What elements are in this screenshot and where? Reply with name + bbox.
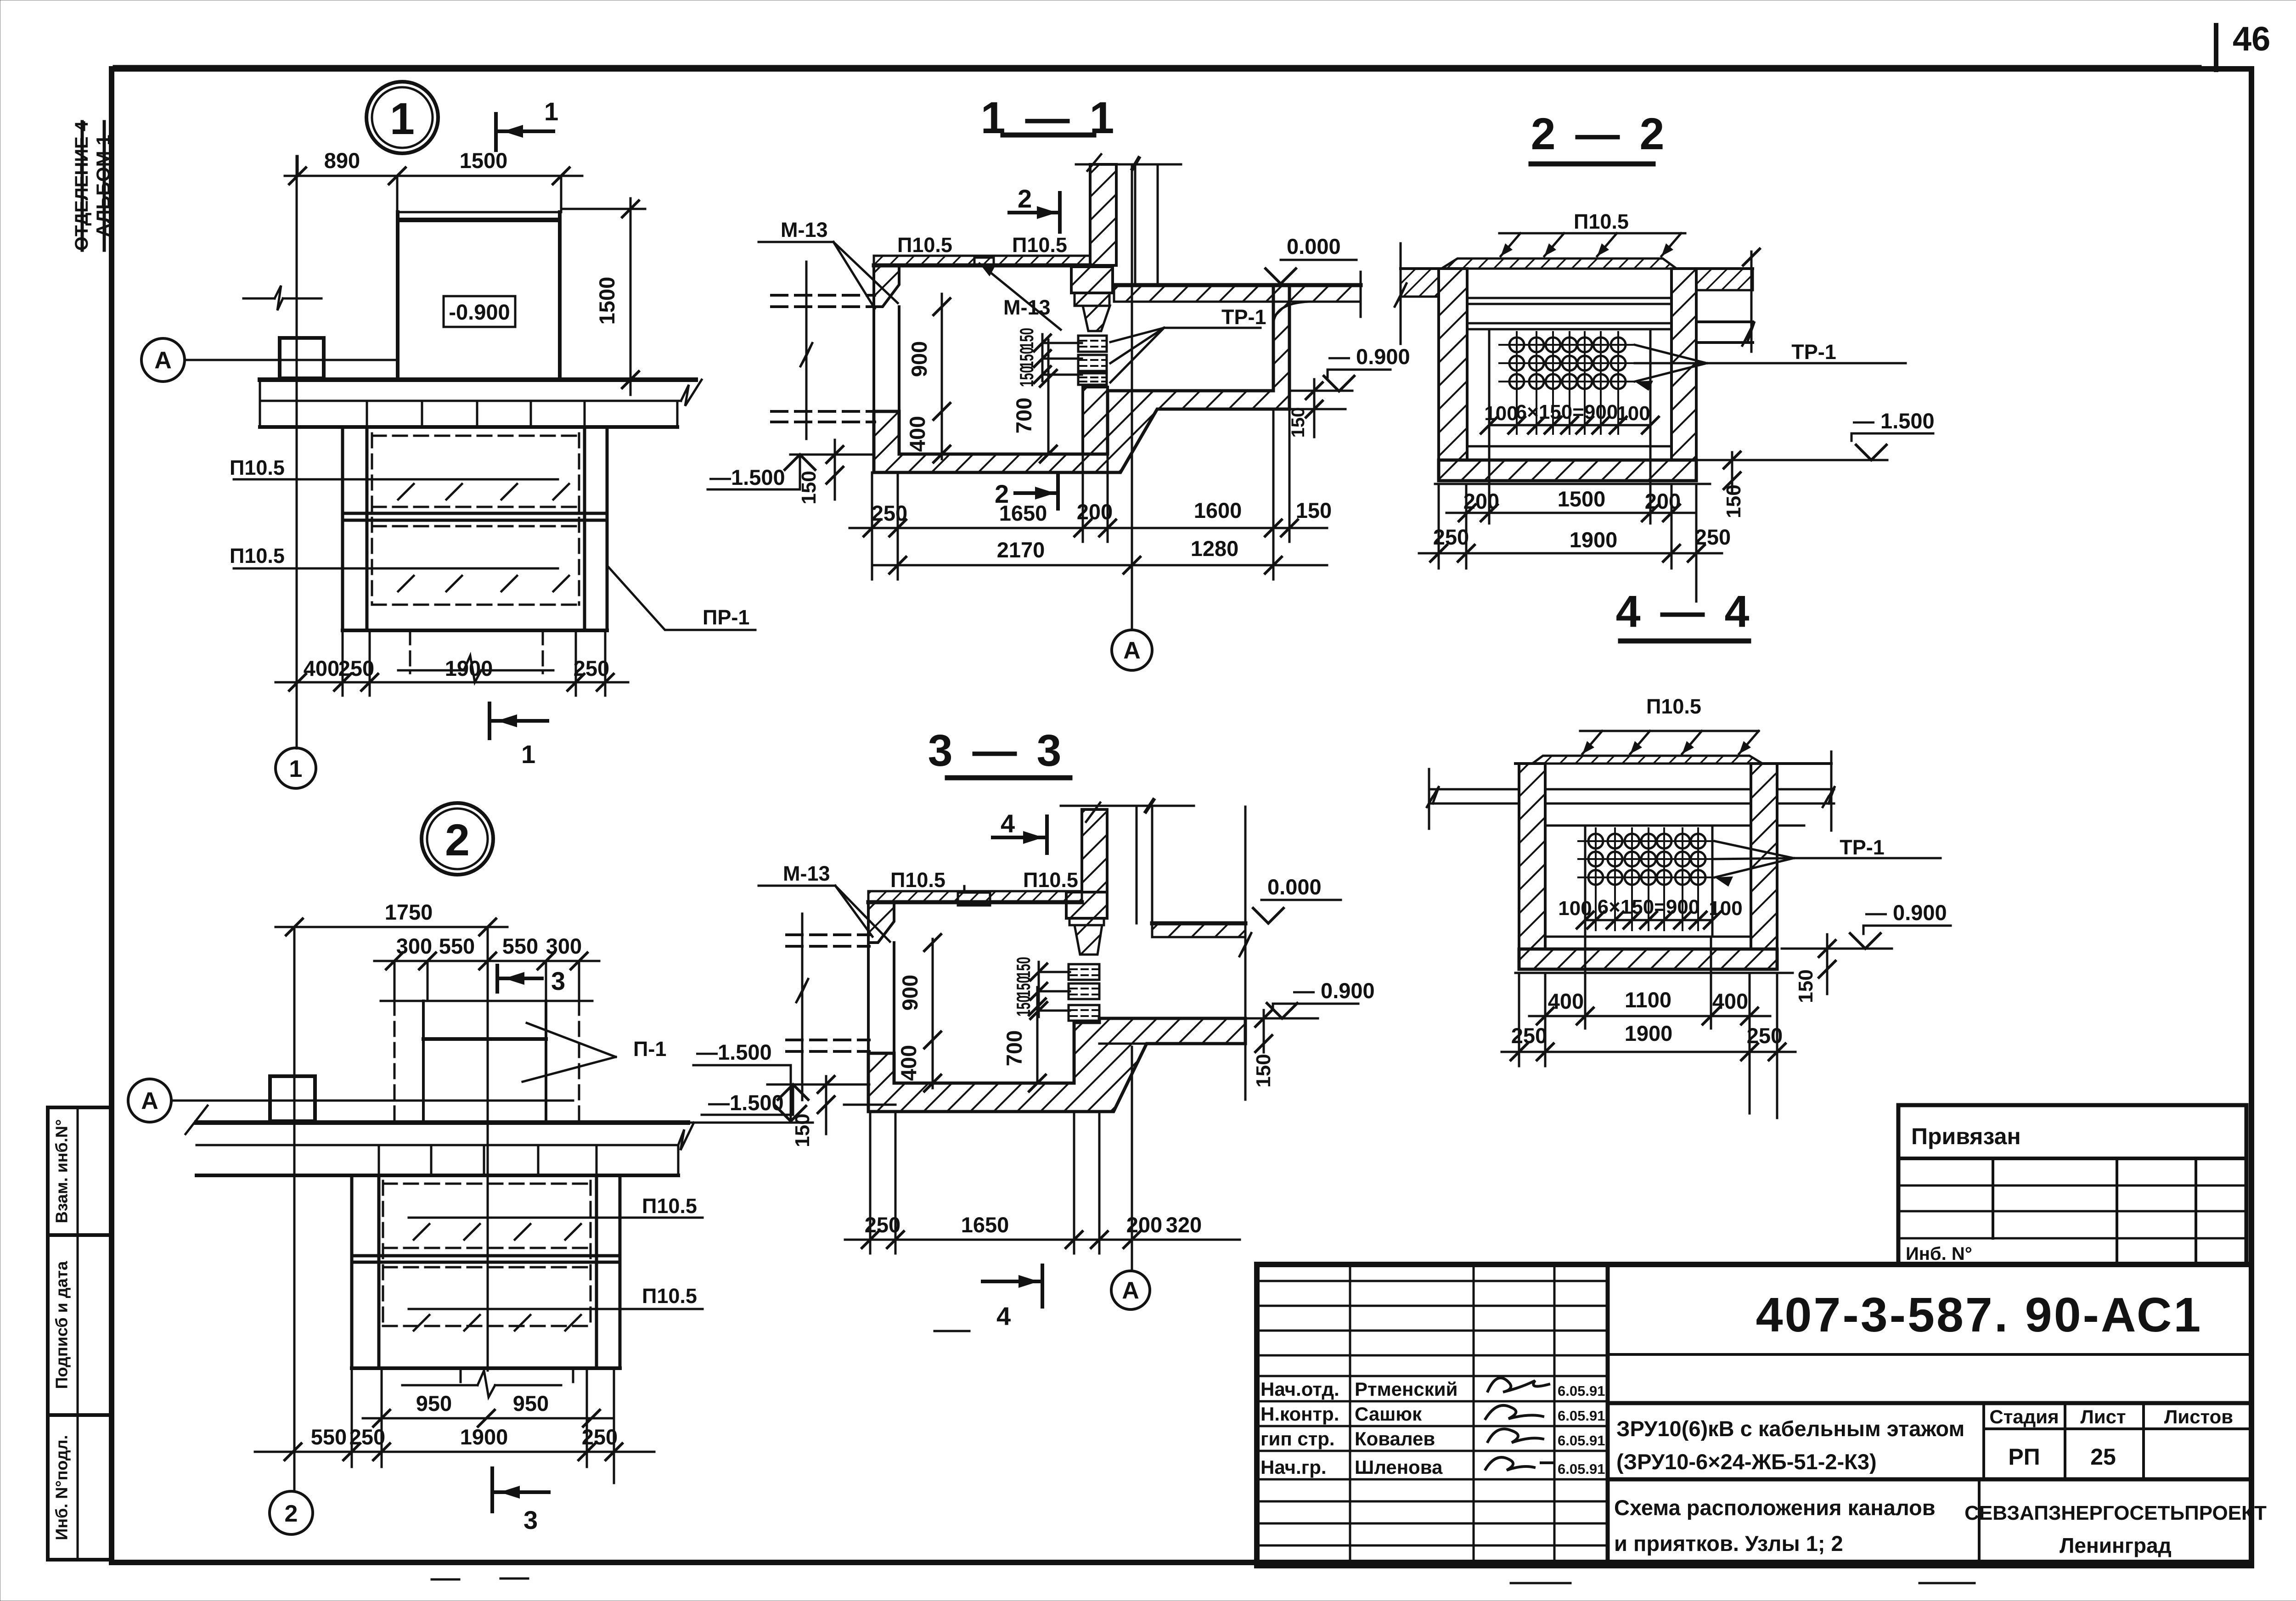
slab band 2 with panel joints [260,425,677,429]
dim 150 slab left [825,1076,827,1134]
svg-text:(ЗРУ10-6×24-ЖБ-51-2-К3): (ЗРУ10-6×24-ЖБ-51-2-К3) [1616,1449,1877,1474]
svg-text:1: 1 [521,740,535,769]
dim 900/400 vertical [932,939,934,1088]
TR-1 circle grid [1499,332,1635,434]
node marker 2 (double circle) [422,803,493,875]
svg-text:250: 250 [872,501,907,525]
left floor band [1401,269,1439,297]
axis A circle [1112,630,1152,670]
svg-text:Листов: Листов [2164,1406,2233,1427]
level -0.900 [1782,948,1892,950]
svg-text:150: 150 [791,1113,814,1147]
dim 150 base right [1731,452,1733,491]
svg-text:Стадия: Стадия [1989,1406,2059,1427]
svg-text:150: 150 [1252,1054,1275,1087]
org box [1978,1479,1981,1566]
axis A circle + line [128,1079,171,1122]
right floor bands [1696,269,1753,290]
svg-text:6.05.91: 6.05.91 [1558,1383,1605,1399]
svg-text:150: 150 [1016,328,1037,349]
central wall below pipes [1083,387,1108,454]
svg-text:100: 100 [1558,897,1592,920]
svg-text:-0.900: -0.900 [449,300,510,324]
base slab [1519,949,1777,969]
tank plan rectangle [398,211,560,213]
right part horizontals [1608,1353,2251,1356]
svg-text:П10.5: П10.5 [1574,210,1629,233]
svg-text:М-13: М-13 [783,862,830,885]
svg-text:150: 150 [1013,957,1034,978]
svg-text:—1.500: —1.500 [696,1040,772,1064]
svg-text:1750: 1750 [385,900,433,924]
svg-text:П10.5: П10.5 [230,456,285,479]
left wall upper (hatched) with notch [874,265,899,307]
svg-text:1650: 1650 [999,501,1047,525]
svg-text:6×150=900: 6×150=900 [1598,896,1700,918]
floor 0.000 band right [1152,923,1245,937]
label P-1 [527,1023,616,1057]
svg-text:П10.5: П10.5 [642,1284,697,1308]
slab dowel detail [958,893,990,905]
left wall lower + channel floor + central wall + pit floor [868,1018,1245,1112]
svg-text:300: 300 [546,934,582,958]
svg-text:950: 950 [513,1391,549,1416]
svg-text:250: 250 [1511,1023,1547,1048]
svg-text:150: 150 [1013,976,1034,997]
slab band 1 [197,1120,688,1125]
right wall curve [1273,302,1309,324]
svg-text:150: 150 [1016,366,1037,387]
dashes below pit [461,1368,573,1388]
svg-text:А: А [141,1088,158,1114]
svg-text:2: 2 [445,815,470,865]
svg-text:6.05.91: 6.05.91 [1558,1408,1605,1424]
svg-text:Н.контр.: Н.контр. [1261,1403,1339,1425]
top break line [1076,163,1181,166]
svg-text:1: 1 [390,94,415,144]
dim 700 vertical [1036,987,1039,1083]
svg-text:400: 400 [304,656,339,680]
small box on axis [280,338,324,378]
svg-text:РП: РП [2008,1444,2040,1470]
svg-text:700: 700 [1012,398,1036,433]
bottom dim row 2 [872,564,1327,567]
bottom dim row2 250/1900/250 [1419,552,1722,555]
svg-text:1900: 1900 [1625,1021,1673,1045]
svg-text:П10.5: П10.5 [1646,695,1701,718]
small box on slab [270,1076,315,1121]
ext verticals [1518,973,1520,1066]
svg-text:— 1.500: — 1.500 [1853,409,1935,433]
dim 100/6x150=900/100 [1585,919,1712,921]
svg-text:6×150=900: 6×150=900 [1516,401,1618,423]
extension lines [871,472,873,579]
P-1 panels in plan [381,1000,592,1002]
svg-text:900: 900 [898,975,922,1011]
svg-text:ТР-1: ТР-1 [1791,340,1836,364]
svg-text:М-13: М-13 [781,218,828,242]
lid slab (hatched trapezoid) [1441,258,1677,269]
dim 100/6x150=900/100 [1489,424,1650,427]
break line upper-left [243,298,275,300]
svg-text:1650: 1650 [961,1213,1009,1237]
svg-text:150: 150 [1288,407,1308,438]
section mark 4 bottom [983,1280,1039,1283]
svg-text:Взам. инб.N°: Взам. инб.N° [52,1119,71,1224]
svg-text:2: 2 [1018,184,1032,213]
left wall upper (hatched) with notch [868,902,894,943]
faint remains below frame [432,1579,1975,1583]
left wall middle [872,307,875,411]
svg-text:407-3-587. 90-АС1: 407-3-587. 90-АС1 [1756,1288,2203,1342]
inner frame [1584,826,1587,937]
svg-text:100: 100 [1484,402,1518,425]
svg-text:4: 4 [1001,809,1015,838]
column above floor (hatched) [1090,164,1116,265]
axis 2 vertical [293,927,296,1491]
svg-text:СЕВЗАПЗНЕРГОСЕТЬПРОЕКТ: СЕВЗАПЗНЕРГОСЕТЬПРОЕКТ [1964,1502,2267,1524]
right floor lines [1777,788,1834,791]
svg-text:П10.5: П10.5 [1023,868,1078,892]
svg-text:400: 400 [905,416,929,452]
svg-text:250: 250 [574,656,609,680]
svg-text:— 0.900: — 0.900 [1865,900,1947,925]
svg-text:А: А [154,347,172,374]
svg-text:1: 1 [289,756,303,782]
pit walls [1519,764,1545,949]
section mark 1 bottom [488,703,491,738]
TR-1 leader [1635,345,1707,363]
svg-text:Нач.отд.: Нач.отд. [1261,1378,1339,1400]
right side 150 dim + level ext [1289,390,1352,392]
svg-text:1280: 1280 [1191,536,1239,561]
svg-text:550: 550 [439,934,475,958]
axis A circle [1111,1271,1150,1309]
column capital (hatched) [1071,267,1113,293]
interior shelf lines [1467,297,1671,299]
node circle 2 bottom [270,1491,313,1534]
left margin vertical + dashes [801,914,804,1100]
svg-text:2170: 2170 [997,538,1045,562]
svg-text:— 0.900: — 0.900 [1293,978,1375,1003]
svg-text:Ковалев: Ковалев [1355,1428,1435,1449]
svg-text:300: 300 [396,934,432,958]
svg-text:—1.500: —1.500 [709,465,785,489]
leader PR-1 [608,567,755,630]
left table rows [1257,1281,1608,1545]
interior shelf lines [1545,788,1751,791]
bottom dims [845,1239,1240,1241]
left wall lower + channel floor slab (hatched) [874,285,1289,472]
left margin column boxes [48,1107,113,1560]
svg-text:400: 400 [896,1045,921,1081]
pit walls plan [341,427,344,630]
inner frame [1488,329,1491,446]
long ext vertical right [1244,807,1247,1100]
svg-text:— 0.900: — 0.900 [1328,344,1410,369]
svg-text:П-1: П-1 [633,1037,666,1061]
svg-text:П10.5: П10.5 [890,868,945,892]
ground lines [1515,762,1532,765]
svg-text:1900: 1900 [460,1425,508,1449]
dim row1 400/1100/400 [1529,1015,1770,1017]
svg-text:А: А [1122,1277,1139,1304]
base slab [1439,460,1696,481]
axis A horizontal + circle [141,338,185,382]
svg-text:А: А [1123,637,1141,664]
pit walls plan [350,1175,354,1368]
svg-text:3 — 3: 3 — 3 [928,725,1065,775]
svg-text:6.05.91: 6.05.91 [1558,1432,1605,1449]
svg-text:900: 900 [907,341,931,377]
slab band 1 [260,377,696,382]
svg-text:ПР-1: ПР-1 [703,606,749,629]
signatures [1488,1378,1549,1392]
svg-text:1500: 1500 [460,148,508,173]
svg-text:890: 890 [324,148,360,173]
center vertical [487,927,489,1371]
svg-text:1900: 1900 [1570,528,1618,552]
svg-text:150: 150 [1795,969,1817,1003]
left margin vertical + dashed cable openings [805,262,808,439]
svg-text:ЗРУ10(6)кВ с кабельным этажом: ЗРУ10(6)кВ с кабельным этажом [1616,1416,1964,1441]
svg-text:Лист: Лист [2080,1406,2126,1427]
svg-text:2 — 2: 2 — 2 [1531,109,1668,159]
svg-text:П10.5: П10.5 [642,1194,697,1218]
svg-text:250: 250 [1695,525,1731,549]
level box -0.900 [444,296,515,327]
dim 150 right [1263,1010,1265,1052]
svg-text:950: 950 [416,1391,452,1416]
svg-text:200: 200 [1463,489,1499,513]
node marker 1 (double circle) [366,82,438,153]
bottom dim row 1 [850,527,1327,529]
left protruding floor lines [1429,788,1519,791]
axis A vertical [1131,166,1133,629]
svg-text:ТР-1: ТР-1 [1840,836,1885,859]
pit walls (hatched) [1439,269,1467,460]
bracket line with break [398,669,464,672]
TR-1 circle grid [1578,828,1715,930]
ext verticals [1438,484,1440,568]
svg-text:1: 1 [544,97,558,126]
svg-text:П10.5: П10.5 [897,233,952,257]
section mark 1 top [494,114,498,150]
svg-text:гип стр.: гип стр. [1261,1428,1335,1449]
double joint line [352,1254,620,1258]
svg-text:400: 400 [1548,989,1584,1013]
svg-text:400: 400 [1712,989,1748,1013]
dims 150x3 at pipes [1041,334,1044,381]
dim 300/550/550/300 [374,960,599,962]
svg-text:Инб. N°: Инб. N° [1906,1244,1972,1264]
svg-text:Нач.гр.: Нач.гр. [1261,1456,1327,1478]
dim 900 vertical [941,294,943,459]
dim 150 slab left [834,440,836,500]
node circle 1 bottom [276,748,316,788]
axis line 1 vertical [296,156,298,748]
svg-text:1500: 1500 [1558,487,1606,511]
svg-text:Ртменский: Ртменский [1355,1378,1458,1400]
svg-text:Схема расположения каналов: Схема расположения каналов [1614,1495,1936,1520]
section mark 3 bottom [490,1468,494,1511]
ground lines [1401,267,1441,270]
stadiya table [1982,1403,1985,1479]
svg-text:4: 4 [996,1302,1011,1331]
svg-text:100: 100 [1709,897,1742,920]
svg-text:П10.5: П10.5 [1012,233,1067,257]
bottom dim row1 200/1500/200 [1446,512,1694,514]
svg-text:—1.500: —1.500 [708,1090,784,1115]
page number 46 [2214,25,2218,70]
dim 150 base right [1826,934,1829,994]
dim row2 250/1900/250 [1502,1051,1795,1053]
svg-text:Инб. N°подл.: Инб. N°подл. [52,1435,71,1540]
svg-text:250: 250 [349,1425,385,1449]
svg-text:1900: 1900 [445,656,493,680]
svg-text:Привязан: Привязан [1911,1124,2021,1149]
svg-text:Подписб и дата: Подписб и дата [52,1261,71,1389]
dashes below pit [410,630,543,673]
svg-text:550: 550 [502,934,538,958]
floor 0.000 band (hatched) [1114,285,1361,302]
svg-text:1600: 1600 [1194,498,1242,522]
svg-text:3: 3 [551,966,565,995]
svg-text:150: 150 [798,471,820,504]
svg-text:Шленова: Шленова [1355,1456,1443,1478]
album stamp rotated [72,121,114,251]
svg-text:Ленинград: Ленинград [2060,1534,2172,1557]
svg-text:550: 550 [311,1425,347,1449]
svg-text:П10.5: П10.5 [230,544,285,567]
hidden dashed rect [383,1181,591,1326]
section mark 3 top [495,966,499,992]
floor slab P10.5 [868,891,1082,902]
dim 550/250/1900/250 [255,1451,654,1453]
lid slab [1532,756,1762,764]
svg-text:и приятков. Узлы 1; 2: и приятков. Узлы 1; 2 [1614,1531,1843,1556]
svg-text:3: 3 [523,1506,538,1534]
column capital [1066,892,1107,918]
pipes stack [1069,964,1099,1021]
svg-text:4 — 4: 4 — 4 [1616,586,1753,636]
svg-text:320: 320 [1166,1213,1202,1237]
dim line 890 / 1500 [285,175,582,177]
hidden dashed rectangle [372,433,579,605]
svg-text:46: 46 [2233,20,2270,58]
svg-text:25: 25 [2090,1444,2116,1470]
svg-text:100: 100 [1616,402,1650,425]
level -1.500 [1696,459,1887,461]
left small table verticals [1349,1264,1351,1566]
svg-text:2: 2 [285,1500,298,1527]
bottom dim 400/250/1900/250 [276,681,628,684]
vertical dim 1500 right [630,198,632,395]
dim 950/950 [363,1417,613,1420]
slab joint detail [974,258,994,266]
dim 1750 [276,926,507,928]
pipes TR-1 stack [1078,336,1107,385]
svg-text:1500: 1500 [595,277,619,325]
svg-text:150: 150 [1722,484,1745,518]
TR-1 leader [1715,841,1794,858]
svg-text:6.05.91: 6.05.91 [1558,1461,1605,1477]
double joint line [343,512,607,515]
svg-text:0.000: 0.000 [1287,234,1341,258]
svg-text:ТР-1: ТР-1 [1221,305,1266,329]
floor slab P10.5 (hatched band) [874,256,1090,265]
svg-text:Сашюк: Сашюк [1355,1403,1422,1425]
dim 700 vertical [1047,340,1050,454]
bracket with break [402,1384,478,1387]
svg-text:1100: 1100 [1625,988,1671,1012]
slab band 2 with joints [197,1174,678,1177]
svg-text:150: 150 [1016,347,1037,368]
svg-text:150: 150 [1296,498,1332,522]
svg-text:0.000: 0.000 [1267,875,1322,899]
top break line [1061,805,1194,807]
dims 150x3 [1038,962,1040,1017]
svg-text:700: 700 [1002,1030,1026,1066]
wall edge above 0.000 floor [1134,164,1137,284]
column (hatched) [1082,809,1107,892]
